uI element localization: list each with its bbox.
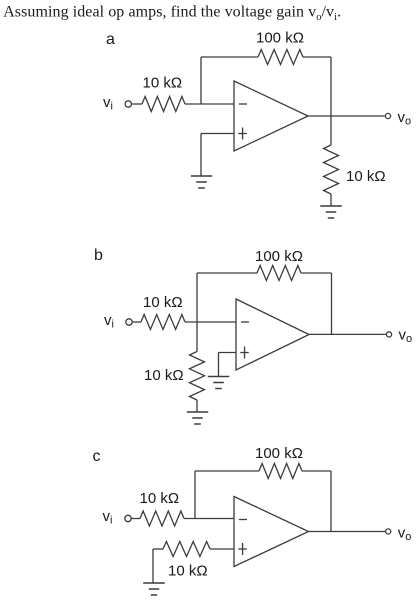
- value label 10 kOhm (circuit c input): [140, 490, 180, 507]
- resistor 10 kOhm non-inverting to ground (circuit c): [153, 542, 234, 584]
- svg-text:vo: vo: [399, 327, 413, 346]
- node vo terminal (circuit b): [386, 332, 391, 337]
- node vi terminal (circuit a): [125, 101, 131, 107]
- svg-text:vo: vo: [398, 525, 412, 544]
- svg-text:vi: vi: [104, 312, 114, 331]
- resistor 10 kOhm input (circuit a): [132, 97, 185, 112]
- section label b: [94, 247, 103, 264]
- non-inverting input marker + (circuit a): [238, 128, 247, 140]
- svg-text:10 kΩ: 10 kΩ: [143, 294, 183, 311]
- svg-text:10 kΩ: 10 kΩ: [168, 563, 208, 580]
- svg-text:c: c: [93, 448, 101, 465]
- label vi (circuit a): [103, 94, 113, 113]
- svg-text:b: b: [94, 247, 103, 264]
- wire feedback left segment (circuit b): [197, 273, 257, 322]
- non-inverting input marker + (circuit c): [238, 543, 247, 555]
- op-amp (circuit b): [236, 299, 309, 370]
- label vi (circuit b): [104, 312, 114, 331]
- node vi terminal (circuit c): [125, 515, 131, 521]
- node vi terminal (circuit b): [126, 319, 132, 325]
- ground (circuit c, non-inverting input): [143, 583, 165, 595]
- value label 100 kOhm (circuit b feedback): [255, 248, 303, 265]
- label vo (circuit b): [399, 327, 413, 346]
- wire feedback right segment (circuit b): [301, 273, 332, 334]
- value label 10 kOhm (circuit b input): [143, 294, 183, 311]
- svg-text:100 kΩ: 100 kΩ: [255, 248, 303, 265]
- wire input to inverting pin (circuit b): [185, 321, 236, 323]
- wire input to inverting pin (circuit c): [184, 518, 234, 520]
- label vo (circuit a): [398, 109, 412, 128]
- wire feedback left segment (circuit c): [195, 471, 259, 519]
- wire feedback right segment (circuit c): [302, 471, 331, 532]
- section label c: [93, 448, 101, 465]
- op-amp (circuit c): [234, 497, 309, 567]
- value label 100 kOhm (circuit a feedback): [256, 30, 304, 47]
- svg-text:Assuming ideal op amps, find t: Assuming ideal op amps, find the voltage…: [3, 4, 341, 24]
- resistor 10 kOhm input (circuit b): [133, 315, 185, 330]
- svg-text:100 kΩ: 100 kΩ: [256, 30, 304, 47]
- op-amp (circuit a): [234, 81, 308, 151]
- wire output (circuit b): [309, 333, 386, 335]
- value label 10 kOhm (circuit a load): [346, 168, 386, 185]
- inverting input marker - (circuit b): [241, 321, 249, 323]
- non-inverting input marker + (circuit b): [240, 347, 249, 359]
- resistor 100 kOhm feedback (circuit a): [258, 50, 303, 65]
- label vi (circuit c): [103, 508, 113, 527]
- wire feedback left segment (circuit a): [201, 57, 258, 104]
- wire output (circuit a): [308, 115, 385, 117]
- wire non-inverting input to ground (circuit a): [201, 134, 234, 177]
- resistor 100 kOhm feedback (circuit c): [259, 464, 302, 479]
- wire non-inverting input to ground (circuit b): [219, 353, 237, 377]
- resistor 100 kOhm feedback (circuit b): [257, 266, 301, 281]
- node vo terminal (circuit c): [386, 529, 391, 534]
- resistor 10 kOhm input (circuit c): [131, 511, 184, 526]
- node vo terminal (circuit a): [385, 113, 390, 118]
- wire output (circuit c): [309, 531, 386, 533]
- wire input to inverting pin (circuit a): [185, 103, 234, 105]
- svg-text:vo: vo: [398, 109, 412, 128]
- value label 10 kOhm (circuit a input): [143, 75, 183, 92]
- inverting input marker - (circuit c): [239, 519, 247, 521]
- svg-text:10 kΩ: 10 kΩ: [144, 367, 184, 384]
- ground (circuit b, non-inverting input): [208, 377, 229, 389]
- svg-text:vi: vi: [103, 508, 113, 527]
- ground (circuit a, non-inverting input): [191, 176, 212, 188]
- wire feedback right segment (circuit a): [303, 57, 331, 116]
- svg-text:a: a: [106, 31, 115, 48]
- title text: [3, 4, 341, 24]
- resistor 10 kOhm shunt to ground (circuit b): [190, 322, 205, 412]
- value label 10 kOhm (circuit b shunt): [144, 367, 184, 384]
- svg-text:vi: vi: [103, 94, 113, 113]
- section label a: [106, 31, 115, 48]
- svg-text:10 kΩ: 10 kΩ: [140, 490, 180, 507]
- label vo (circuit c): [398, 525, 412, 544]
- inverting input marker - (circuit a): [239, 103, 247, 105]
- svg-text:100 kΩ: 100 kΩ: [255, 445, 303, 462]
- svg-text:10 kΩ: 10 kΩ: [143, 75, 183, 92]
- ground (circuit a, load): [320, 206, 342, 218]
- value label 100 kOhm (circuit c feedback): [255, 445, 303, 462]
- svg-text:10 kΩ: 10 kΩ: [346, 168, 386, 185]
- value label 10 kOhm (circuit c non-inverting): [168, 563, 208, 580]
- resistor 10 kOhm load (circuit a): [324, 116, 339, 206]
- ground (circuit b, shunt resistor): [187, 412, 208, 424]
